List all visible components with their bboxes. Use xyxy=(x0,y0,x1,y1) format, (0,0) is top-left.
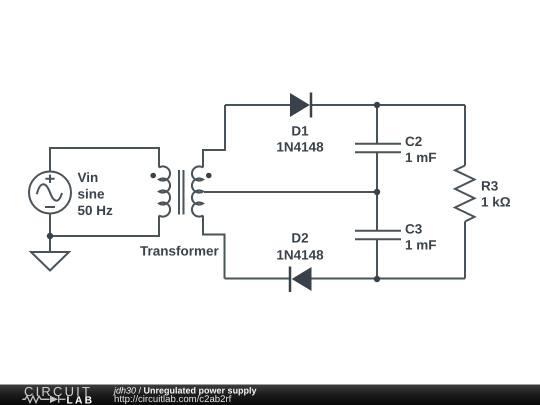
diode D1 xyxy=(290,93,311,118)
svg-text:1N4148: 1N4148 xyxy=(276,247,324,262)
wire right side top xyxy=(464,105,466,166)
svg-text:1 kΩ: 1 kΩ xyxy=(481,195,511,210)
wire bottom rail right of D2 xyxy=(312,278,466,280)
label D1 1N4148 xyxy=(276,123,324,154)
wire center tap xyxy=(204,191,377,193)
wire C2 bottom lead xyxy=(376,152,378,192)
wire secondary top to top rail xyxy=(203,105,225,168)
transformer T1 secondary winding xyxy=(192,166,203,216)
wire top rail right of D1 xyxy=(311,104,465,106)
wire right side bottom xyxy=(464,222,466,279)
label R3 1 kOhm xyxy=(481,179,511,210)
svg-text:Transformer: Transformer xyxy=(140,244,220,259)
footer bar xyxy=(0,385,540,405)
svg-text:50 Hz: 50 Hz xyxy=(78,203,114,218)
transformer T1 core xyxy=(179,170,184,215)
label D2 1N4148 xyxy=(276,231,324,263)
capacitor C3 xyxy=(355,231,401,240)
wire top rail left of D1 xyxy=(225,104,290,106)
svg-text:C2: C2 xyxy=(405,134,422,149)
svg-text:sine: sine xyxy=(78,187,106,202)
svg-text:1 mF: 1 mF xyxy=(405,237,437,252)
diode D2 xyxy=(290,267,312,293)
label C3 1 mF xyxy=(405,221,437,252)
svg-text:C3: C3 xyxy=(405,221,423,236)
transformer phase dot primary xyxy=(150,173,156,179)
wire primary bottom xyxy=(50,216,159,237)
transformer T1 primary winding xyxy=(159,166,170,216)
wire C2 top lead xyxy=(376,105,378,144)
svg-text:D1: D1 xyxy=(291,123,309,138)
svg-text:1N4148: 1N4148 xyxy=(276,140,324,155)
ground xyxy=(31,252,69,271)
wire secondary bottom to bottom rail xyxy=(203,216,225,279)
label Vin sine 50 Hz xyxy=(78,170,114,218)
svg-text:LAB: LAB xyxy=(67,395,95,405)
resistor R3 xyxy=(455,166,475,222)
wire bottom rail left of D2 xyxy=(225,278,291,280)
voltage source V1 Vin xyxy=(29,172,71,214)
node center tap junction xyxy=(374,189,380,195)
svg-text:D2: D2 xyxy=(291,231,308,246)
capacitor C2 xyxy=(355,144,401,153)
wire C3 top lead xyxy=(376,192,378,231)
label C2 1 mF xyxy=(405,134,437,165)
wire source top to primary top xyxy=(50,148,159,172)
svg-text:http://circuitlab.com/c2ab2rf: http://circuitlab.com/c2ab2rf xyxy=(114,394,232,405)
logo resistor zigzag and diode xyxy=(22,396,65,403)
transformer phase dot secondary xyxy=(206,173,212,179)
node top rail junction xyxy=(374,102,380,108)
svg-text:R3: R3 xyxy=(481,179,499,194)
svg-text:1 mF: 1 mF xyxy=(405,150,437,165)
wire source bottom to ground xyxy=(49,214,51,253)
node bottom rail junction xyxy=(374,276,380,282)
svg-text:Vin: Vin xyxy=(78,170,99,185)
node source bottom junction xyxy=(47,233,53,239)
wire C3 bottom lead xyxy=(376,239,378,279)
